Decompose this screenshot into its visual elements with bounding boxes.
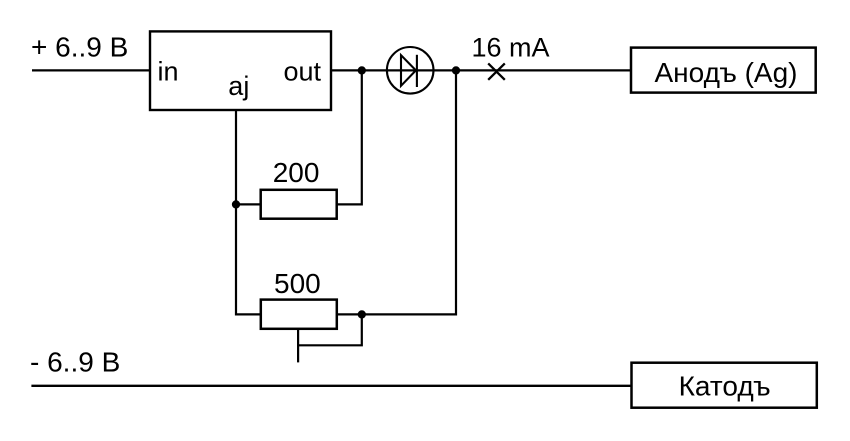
LED D1 anode bar and triangle: [401, 55, 416, 86]
svg-text:+ 6..9 В: + 6..9 В: [31, 32, 128, 63]
wire: R200 right then riser up to out node: [337, 70, 362, 204]
wire: wiper horizontal link up to node D: [298, 314, 362, 345]
svg-text:aj: aj: [228, 71, 249, 101]
cathode terminal box: [632, 363, 817, 408]
node junction dot A (out / R200 riser): [358, 66, 366, 74]
wire: aj node to R200 left: [236, 203, 261, 205]
regulator U1 box: [150, 31, 331, 110]
svg-text:200: 200: [273, 157, 320, 188]
node junction dot B (LED cathode side / pot riser): [452, 66, 460, 74]
anode terminal box: [631, 48, 816, 93]
svg-text:Катодъ: Катодъ: [679, 370, 771, 401]
node junction dot D (pot wiper tie): [358, 310, 366, 318]
wire: pot right terminal along to riser B corner: [337, 70, 456, 314]
svg-text:500: 500: [274, 268, 321, 299]
potentiometer R 500 body: [261, 300, 337, 329]
wire: negative rail to cathode box: [31, 385, 631, 387]
wire: positive input rail to regulator in: [32, 69, 150, 71]
pot wiper stub down: [297, 329, 299, 363]
wire: regulator out to anode box: [331, 69, 631, 71]
svg-text:16 mA: 16 mA: [472, 33, 550, 63]
LED D1 cathode bar: [416, 55, 418, 87]
resistor R 200 body: [261, 190, 337, 219]
wire: aj pin down and corner to pot left: [236, 110, 261, 314]
svg-text:out: out: [284, 57, 322, 87]
node junction dot C (aj / R200 left): [232, 200, 240, 208]
svg-text:in: in: [158, 57, 179, 87]
svg-text:Анодъ (Ag): Анодъ (Ag): [655, 57, 798, 88]
LED D1 circle: [387, 47, 434, 94]
svg-text:- 6..9 В: - 6..9 В: [30, 347, 120, 378]
X measurement mark on wire: [488, 63, 505, 79]
